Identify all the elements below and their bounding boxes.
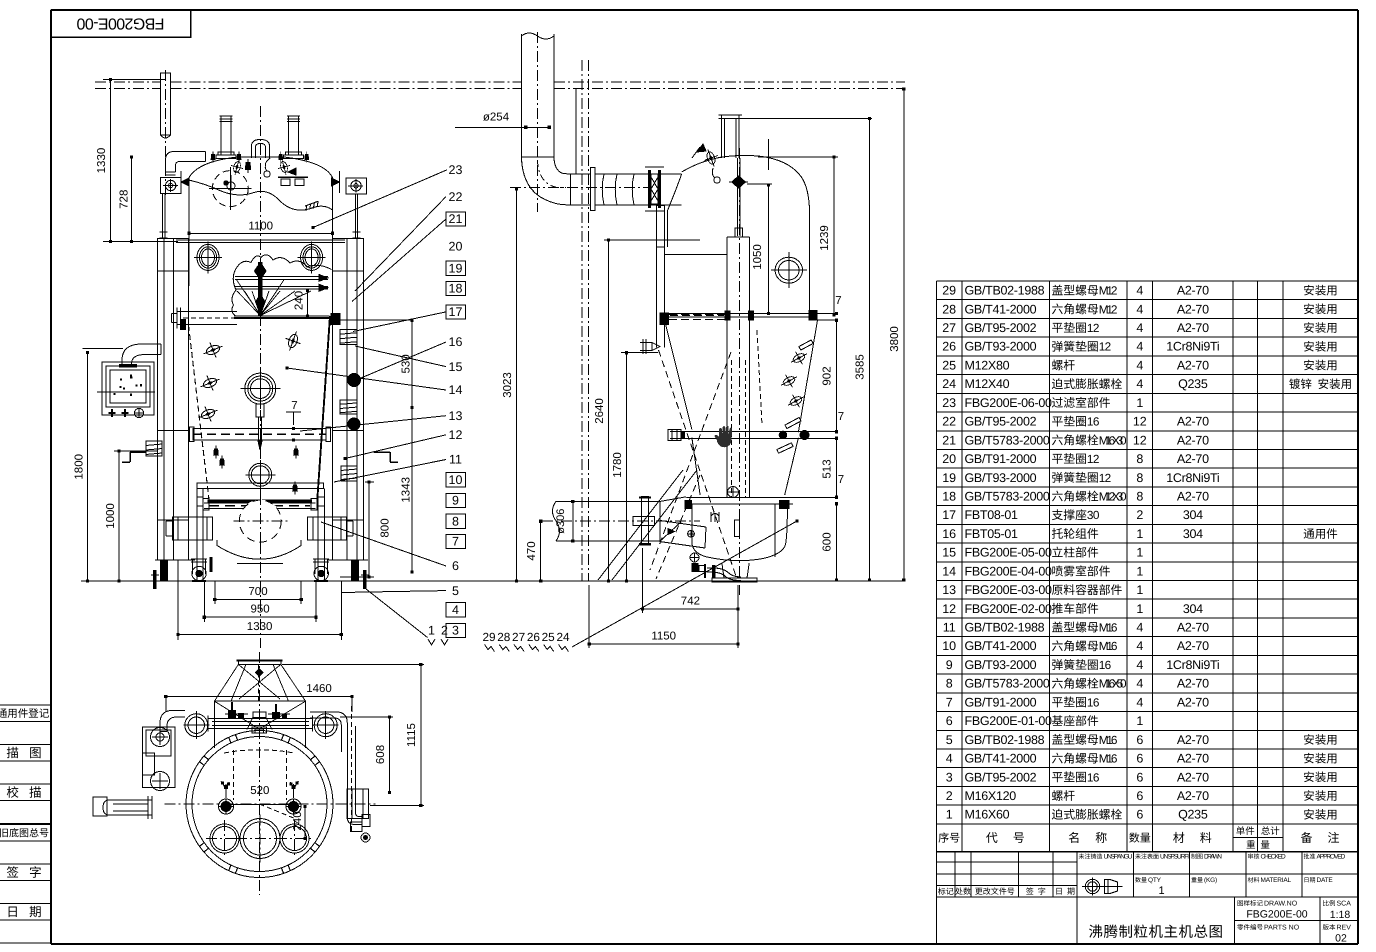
svg-text:A2-70: A2-70 (1177, 302, 1209, 316)
svg-text:FBG200E-03-00: FBG200E-03-00 (965, 583, 1052, 597)
svg-text:29: 29 (482, 630, 495, 644)
svg-text:DRAWN: DRAWN (1204, 854, 1222, 861)
svg-text:28: 28 (942, 302, 956, 316)
svg-text:4: 4 (1136, 377, 1143, 391)
svg-text:4: 4 (1136, 302, 1143, 316)
svg-text:A2-70: A2-70 (1177, 284, 1209, 298)
svg-text:4: 4 (946, 752, 953, 766)
svg-text:9: 9 (452, 494, 459, 508)
svg-text:12: 12 (1087, 452, 1100, 466)
svg-text:240: 240 (292, 811, 304, 830)
svg-text:8: 8 (1136, 452, 1143, 466)
svg-text:1239: 1239 (819, 225, 831, 251)
svg-text:17: 17 (449, 305, 463, 319)
svg-text:APPROVED: APPROVED (1317, 854, 1346, 861)
svg-text:3: 3 (946, 770, 953, 784)
svg-text:1Cr8Ni9Ti: 1Cr8Ni9Ti (1166, 471, 1219, 485)
svg-text:700: 700 (248, 586, 267, 598)
svg-text:12: 12 (1087, 321, 1100, 335)
svg-text:GB/T93-2000: GB/T93-2000 (965, 340, 1037, 354)
svg-text:22: 22 (449, 190, 463, 204)
svg-text:ø254: ø254 (483, 112, 510, 124)
svg-text:A2-70: A2-70 (1177, 452, 1209, 466)
svg-text:15: 15 (942, 546, 956, 560)
svg-text:GB/TB02-1988: GB/TB02-1988 (965, 284, 1045, 298)
svg-text:6: 6 (452, 559, 459, 573)
svg-text:02: 02 (1335, 933, 1347, 945)
svg-text:M16: M16 (1099, 752, 1118, 766)
svg-text:26: 26 (942, 340, 956, 354)
svg-text:DRAW.NO: DRAW.NO (1264, 901, 1298, 908)
svg-text:GB/T5783-2000: GB/T5783-2000 (965, 677, 1050, 691)
svg-text:7: 7 (291, 400, 297, 412)
svg-text:11: 11 (943, 621, 956, 635)
svg-text:1800: 1800 (74, 454, 86, 480)
svg-text:26: 26 (527, 630, 541, 644)
svg-text:1: 1 (428, 624, 435, 638)
svg-text:13: 13 (449, 409, 463, 423)
svg-text:1: 1 (1136, 396, 1143, 410)
svg-text:800: 800 (380, 518, 392, 537)
svg-text:M12: M12 (1099, 284, 1118, 298)
svg-text:A2-70: A2-70 (1177, 733, 1209, 747)
svg-text:A2-70: A2-70 (1177, 677, 1209, 691)
svg-text:12: 12 (1133, 433, 1147, 447)
svg-text:FBG200E-06-00: FBG200E-06-00 (965, 396, 1052, 410)
svg-text:6: 6 (1136, 770, 1143, 784)
svg-text:1150: 1150 (651, 631, 676, 643)
svg-text:16: 16 (1099, 658, 1112, 672)
svg-text:1000: 1000 (105, 503, 117, 529)
svg-text:950: 950 (251, 604, 270, 616)
svg-text:1: 1 (1136, 602, 1143, 616)
svg-text:CHECKED: CHECKED (1261, 854, 1286, 861)
svg-text:M16X50: M16X50 (1099, 677, 1127, 691)
svg-text:4: 4 (1136, 621, 1143, 635)
svg-text:6: 6 (1136, 752, 1143, 766)
svg-text:SCA: SCA (1337, 901, 1352, 908)
svg-text:DATE: DATE (1317, 877, 1334, 884)
svg-text:A2-70: A2-70 (1177, 415, 1209, 429)
svg-text:4: 4 (1136, 284, 1143, 298)
svg-text:8: 8 (946, 677, 953, 691)
svg-text:21: 21 (449, 212, 463, 226)
svg-text:15: 15 (449, 360, 463, 374)
svg-text:12: 12 (1099, 340, 1112, 354)
svg-text:16: 16 (1087, 695, 1100, 709)
svg-text:4: 4 (1136, 340, 1143, 354)
svg-text:GB/T95-2002: GB/T95-2002 (965, 321, 1037, 335)
svg-text:1330: 1330 (247, 621, 273, 633)
svg-text:600: 600 (822, 532, 834, 551)
svg-text:20: 20 (942, 452, 956, 466)
svg-text:7: 7 (835, 295, 841, 307)
svg-text:10: 10 (449, 473, 463, 487)
svg-text:304: 304 (1183, 508, 1203, 522)
svg-text:18: 18 (942, 490, 956, 504)
svg-text:2: 2 (1136, 508, 1143, 522)
svg-text:7: 7 (452, 535, 459, 549)
svg-text:FBG200E-05-00: FBG200E-05-00 (965, 546, 1052, 560)
svg-text:1330: 1330 (96, 148, 108, 174)
svg-text:30: 30 (1087, 508, 1100, 522)
svg-text:7: 7 (838, 474, 844, 486)
svg-text:21: 21 (942, 433, 956, 447)
svg-text:23: 23 (942, 396, 956, 410)
svg-text:GB/T5783-2000: GB/T5783-2000 (965, 490, 1050, 504)
svg-text:FBT05-01: FBT05-01 (965, 527, 1019, 541)
svg-text:12: 12 (1133, 415, 1147, 429)
svg-text:A2-70: A2-70 (1177, 752, 1209, 766)
svg-text:24: 24 (942, 377, 956, 391)
svg-text:1Cr8Ni9Ti: 1Cr8Ni9Ti (1166, 340, 1219, 354)
svg-text:16: 16 (1087, 415, 1100, 429)
svg-text:5: 5 (946, 733, 953, 747)
svg-text:6: 6 (946, 714, 953, 728)
svg-text:1:18: 1:18 (1330, 909, 1351, 921)
svg-text:1Cr8Ni9Ti: 1Cr8Ni9Ti (1166, 658, 1219, 672)
svg-text:1: 1 (1136, 564, 1143, 578)
svg-text:2640: 2640 (594, 398, 606, 424)
svg-text:513: 513 (822, 459, 834, 478)
svg-text:304: 304 (1183, 602, 1203, 616)
svg-text:(KG): (KG) (1204, 877, 1217, 884)
svg-text:6: 6 (1136, 733, 1143, 747)
svg-text:GB/T91-2000: GB/T91-2000 (965, 695, 1037, 709)
svg-text:25: 25 (942, 358, 956, 372)
svg-text:520: 520 (250, 785, 269, 797)
svg-text:4: 4 (452, 603, 459, 617)
svg-text:18: 18 (449, 282, 463, 296)
svg-text:4: 4 (1136, 358, 1143, 372)
svg-text:12: 12 (449, 428, 463, 442)
svg-text:7: 7 (838, 411, 844, 423)
svg-text:1: 1 (1136, 583, 1143, 597)
svg-text:3: 3 (452, 624, 459, 638)
svg-text:1100: 1100 (248, 221, 273, 233)
svg-text:8: 8 (452, 514, 459, 528)
svg-text:M16: M16 (1099, 621, 1118, 635)
svg-text:29: 29 (942, 284, 956, 298)
svg-text:M12X30: M12X30 (1099, 490, 1127, 504)
svg-text:M12X40: M12X40 (965, 377, 1010, 391)
svg-text:6: 6 (1136, 808, 1143, 822)
svg-text:1115: 1115 (406, 723, 418, 747)
svg-text:GB/TB02-1988: GB/TB02-1988 (965, 733, 1045, 747)
svg-text:3023: 3023 (502, 372, 514, 398)
svg-text:GB/T93-2000: GB/T93-2000 (965, 658, 1037, 672)
svg-text:5: 5 (452, 584, 459, 598)
svg-text:470: 470 (526, 541, 538, 560)
svg-text:14: 14 (449, 383, 463, 397)
svg-text:A2-70: A2-70 (1177, 433, 1209, 447)
svg-text:22: 22 (942, 415, 956, 429)
svg-text:28: 28 (497, 630, 511, 644)
svg-text:A2-70: A2-70 (1177, 789, 1209, 803)
svg-text:1: 1 (1136, 546, 1143, 560)
svg-text:20: 20 (449, 240, 463, 254)
svg-text:UNSP.SURFI: UNSP.SURFI (1160, 854, 1189, 861)
svg-text:1: 1 (1136, 714, 1143, 728)
svg-text:A2-70: A2-70 (1177, 621, 1209, 635)
svg-text:GB/T41-2000: GB/T41-2000 (965, 752, 1037, 766)
svg-text:4: 4 (1136, 321, 1143, 335)
svg-text:23: 23 (449, 163, 463, 177)
svg-text:16: 16 (1087, 770, 1100, 784)
svg-text:A2-70: A2-70 (1177, 321, 1209, 335)
svg-text:4: 4 (1136, 695, 1143, 709)
svg-text:M16X120: M16X120 (965, 789, 1017, 803)
svg-text:27: 27 (942, 321, 956, 335)
svg-text:19: 19 (449, 262, 463, 276)
svg-text:GB/T95-2002: GB/T95-2002 (965, 770, 1037, 784)
svg-text:10: 10 (942, 639, 956, 653)
svg-text:M16: M16 (1099, 639, 1118, 653)
svg-text:FBG200E-02-00: FBG200E-02-00 (965, 602, 1052, 616)
svg-text:25: 25 (542, 630, 556, 644)
svg-text:PARTS NO: PARTS NO (1264, 925, 1300, 932)
svg-text:8: 8 (1136, 471, 1143, 485)
svg-text:27: 27 (512, 630, 525, 644)
svg-text:GB/T41-2000: GB/T41-2000 (965, 302, 1037, 316)
svg-text:608: 608 (375, 745, 387, 764)
svg-text:GB/TB02-1988: GB/TB02-1988 (965, 621, 1045, 635)
svg-text:GB/T93-2000: GB/T93-2000 (965, 471, 1037, 485)
svg-text:FBG200E-04-00: FBG200E-04-00 (965, 564, 1052, 578)
svg-text:GB/T91-2000: GB/T91-2000 (965, 452, 1037, 466)
svg-text:19: 19 (942, 471, 956, 485)
svg-text:FBG200E-00: FBG200E-00 (76, 15, 164, 32)
svg-text:902: 902 (822, 366, 834, 385)
svg-text:2: 2 (441, 624, 448, 638)
svg-text:FBG200E-01-00: FBG200E-01-00 (965, 714, 1052, 728)
svg-text:1: 1 (946, 808, 953, 822)
svg-text:24: 24 (556, 630, 570, 644)
svg-text:REV: REV (1337, 925, 1352, 932)
svg-text:1: 1 (1136, 527, 1143, 541)
svg-text:240: 240 (294, 291, 306, 310)
svg-text:M16: M16 (1099, 733, 1118, 747)
svg-text:Q235: Q235 (1178, 377, 1208, 391)
svg-text:742: 742 (681, 596, 700, 608)
svg-text:QTY: QTY (1148, 877, 1162, 884)
svg-text:12: 12 (942, 602, 956, 616)
svg-text:728: 728 (119, 190, 131, 209)
svg-text:8: 8 (1136, 490, 1143, 504)
svg-text:GB/T95-2002: GB/T95-2002 (965, 415, 1037, 429)
svg-text:4: 4 (1136, 639, 1143, 653)
svg-text:UNSP.ANGU: UNSP.ANGU (1104, 854, 1133, 861)
svg-text:A2-70: A2-70 (1177, 639, 1209, 653)
svg-text:A2-70: A2-70 (1177, 490, 1209, 504)
svg-text:ø306: ø306 (555, 509, 567, 534)
svg-text:7: 7 (946, 695, 953, 709)
svg-text:11: 11 (449, 453, 462, 467)
svg-text:A2-70: A2-70 (1177, 358, 1209, 372)
svg-text:1: 1 (1158, 885, 1164, 897)
svg-text:M16X30: M16X30 (1099, 433, 1127, 447)
svg-text:A2-70: A2-70 (1177, 770, 1209, 784)
svg-text:12: 12 (1099, 471, 1112, 485)
svg-text:1460: 1460 (306, 683, 332, 695)
svg-text:14: 14 (942, 564, 956, 578)
svg-text:A2-70: A2-70 (1177, 695, 1209, 709)
svg-text:FBT08-01: FBT08-01 (965, 508, 1019, 522)
svg-text:13: 13 (942, 583, 956, 597)
svg-text:16: 16 (449, 335, 463, 349)
svg-text:2: 2 (946, 789, 953, 803)
svg-text:M12: M12 (1099, 302, 1118, 316)
svg-text:4: 4 (1136, 677, 1143, 691)
svg-text:4: 4 (1136, 658, 1143, 672)
svg-text:Q235: Q235 (1178, 808, 1208, 822)
svg-text:16: 16 (942, 527, 956, 541)
svg-text:GB/T41-2000: GB/T41-2000 (965, 639, 1037, 653)
svg-text:M16X60: M16X60 (965, 808, 1010, 822)
svg-text:1343: 1343 (401, 477, 413, 503)
svg-text:1780: 1780 (612, 452, 624, 478)
svg-text:6: 6 (1136, 789, 1143, 803)
svg-text:GB/T5783-2000: GB/T5783-2000 (965, 433, 1050, 447)
svg-text:9: 9 (946, 658, 953, 672)
svg-text:M12X80: M12X80 (965, 358, 1010, 372)
svg-text:304: 304 (1183, 527, 1203, 541)
svg-text:3800: 3800 (889, 326, 901, 352)
svg-text:1050: 1050 (752, 244, 764, 270)
svg-text:FBG200E-00: FBG200E-00 (1246, 909, 1307, 921)
svg-text:MATERIAL: MATERIAL (1261, 877, 1292, 884)
svg-text:3585: 3585 (855, 354, 867, 380)
svg-text:17: 17 (942, 508, 956, 522)
